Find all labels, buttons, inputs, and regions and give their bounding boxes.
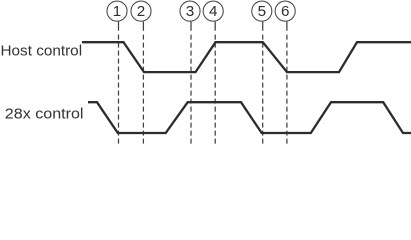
28x control waveform: [88, 102, 411, 133]
callout circle 5: [252, 1, 272, 21]
svg-text:3: 3: [186, 3, 194, 20]
dashed timing line 5: [262, 22, 264, 144]
dashed timing line 1: [118, 22, 120, 144]
callout circle 4: [203, 1, 223, 21]
callout circle 3: [180, 1, 200, 21]
svg-text:1: 1: [113, 3, 121, 20]
label 28x control: [5, 105, 84, 122]
callout circle 1: [107, 1, 127, 21]
dashed timing line 6: [286, 22, 288, 144]
svg-text:6: 6: [281, 3, 289, 20]
Host control waveform: [82, 42, 411, 72]
callout circle 2: [131, 1, 151, 21]
svg-text:28x control: 28x control: [5, 105, 84, 122]
svg-text:4: 4: [209, 3, 217, 20]
svg-text:2: 2: [137, 3, 145, 20]
dashed timing line 3: [190, 22, 192, 144]
svg-text:5: 5: [258, 3, 266, 20]
callout circle 6: [275, 1, 295, 21]
dashed timing line 4: [214, 22, 216, 144]
svg-text:Host control: Host control: [1, 43, 83, 60]
dashed timing line 2: [142, 22, 144, 144]
label Host control: [1, 43, 83, 60]
